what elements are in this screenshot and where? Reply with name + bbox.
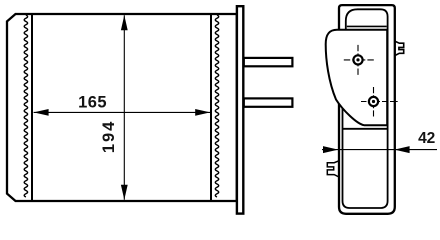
svg-text:165: 165: [78, 94, 107, 112]
svg-text:42: 42: [418, 130, 435, 147]
svg-text:194: 194: [100, 120, 118, 154]
